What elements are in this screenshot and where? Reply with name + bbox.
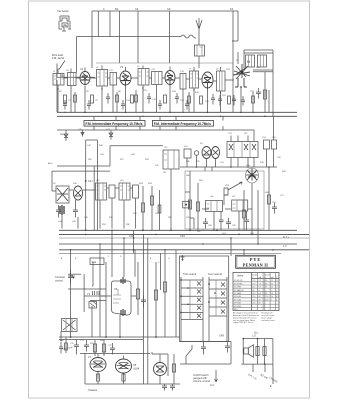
wire drop x169.6 (169, 11, 171, 63)
svg-text:250: 250 (252, 296, 255, 298)
svg-text:and meter used.: and meter used. (261, 319, 275, 322)
svg-text:—: — (252, 306, 254, 308)
svg-text:3.2: 3.2 (271, 283, 274, 285)
bus vertical right (133, 230, 135, 253)
drop T4 (182, 89, 184, 112)
rectifier V10 (154, 354, 167, 384)
wire h339 (59, 339, 143, 341)
resistor rb1 (136, 262, 139, 315)
dot C50 (73, 277, 75, 279)
terminal labels below bus (61, 256, 170, 264)
resistor rl1 (141, 186, 144, 230)
wire m drops (214, 183, 258, 230)
table caption left (233, 312, 259, 325)
svg-text:V1: V1 (80, 67, 84, 71)
cap c-d (211, 94, 215, 105)
ratio detector transformer T7 (227, 142, 258, 158)
wire AGC pair lower (57, 170, 110, 172)
T1 windings (54, 74, 64, 86)
wire h384 (85, 383, 180, 385)
T7 diode marks (229, 144, 256, 150)
T9 windings (120, 183, 130, 200)
strip1 terminals (180, 279, 189, 313)
svg-text:Chassis: Chassis (88, 388, 98, 392)
cathode resistor ro3 (96, 374, 99, 381)
svg-text:Contrast: Contrast (55, 275, 65, 279)
bus rail B1 (59, 229, 297, 231)
cap c-b (147, 93, 151, 104)
svg-text:Car Aerial: Car Aerial (57, 9, 69, 13)
grid bias wire (57, 74, 85, 113)
cap cb1 (68, 270, 73, 284)
valve V1 (80, 72, 90, 86)
wire x273 link (273, 116, 275, 140)
junction dots 337 (70, 336, 157, 338)
V6 grid lines (113, 289, 121, 303)
drop T3b (156, 85, 158, 113)
valve V5 FM discriminator (233, 64, 250, 87)
table sub headers (252, 274, 278, 280)
wire x231 drop (230, 342, 232, 365)
cap co3 (110, 343, 115, 355)
cap af1 (219, 212, 224, 231)
svg-text:6.5: 6.5 (259, 293, 262, 295)
cap co2 (84, 340, 89, 352)
wire drop x119.5 (119, 11, 121, 63)
bus rail B6 (59, 252, 281, 254)
osc trimmer box2 (258, 55, 267, 67)
speaker network rail bottom (241, 363, 273, 365)
svg-text:V7 UL84: V7 UL84 (234, 299, 241, 301)
svg-text:5: 5 (271, 299, 272, 301)
wire drop x138 (137, 11, 139, 63)
cap c-f (232, 95, 236, 106)
resistor r-a (64, 95, 67, 103)
tuner box inner (164, 150, 174, 169)
oscillator top wires (244, 50, 273, 70)
drop V4 (207, 90, 209, 113)
valve V6a (202, 147, 211, 159)
diode D2 (81, 131, 84, 137)
bus drop stubs (71, 229, 258, 297)
wire IF2 drops (62, 198, 136, 229)
svg-text:6.2: 6.2 (276, 296, 279, 298)
wire top of R20 (253, 70, 273, 116)
cap cl1 (56, 205, 61, 218)
volume control arrow (228, 182, 242, 190)
AF small box (183, 201, 190, 208)
cap cm2 (203, 218, 208, 229)
cap cbr2 (225, 342, 230, 353)
output valve V8 (116, 356, 132, 382)
T8 windings (97, 183, 107, 200)
resistor ro2 (102, 340, 105, 356)
svg-text:6: 6 (276, 299, 277, 301)
svg-text:170: 170 (252, 283, 255, 285)
wire long vertical x94.2 (93, 166, 95, 230)
svg-text:85: 85 (265, 280, 267, 282)
table header rule (252, 278, 280, 280)
svg-text:V2: V2 (120, 65, 124, 69)
box terminal mark (181, 255, 185, 261)
mid small dots (196, 166, 270, 168)
bus rail B5 (59, 249, 309, 251)
svg-text:170: 170 (252, 280, 255, 282)
resistor rl3 (158, 190, 161, 230)
V6 anode blob top (121, 277, 125, 284)
wire second rail (77, 36, 182, 38)
svg-text:.5: .5 (259, 290, 261, 292)
IF transformer T4 (180, 74, 186, 90)
valve V6b triode (246, 168, 259, 183)
drop V5 (240, 87, 242, 112)
AM IF link line (57, 130, 254, 136)
wire det rail (180, 166, 277, 168)
svg-text:1.2: 1.2 (271, 280, 274, 282)
cap cr2 (170, 384, 175, 391)
T4 inner (182, 74, 184, 90)
strip link wires (64, 78, 234, 81)
table caption right (261, 313, 275, 322)
cap cm3 (226, 218, 231, 229)
trimmer box t1 (264, 140, 270, 149)
wire drop x110 (109, 11, 111, 37)
svg-text:A.C.: A.C. (210, 383, 215, 387)
svg-text:supply 240V A.C. 50 c/s.: supply 240V A.C. 50 c/s. (233, 321, 254, 324)
label box link stubs (94, 116, 223, 130)
resistor ro5 (65, 340, 68, 353)
drop V2 (125, 86, 127, 112)
coupling box T2b (110, 73, 117, 86)
svg-text:F.M. Intermediate Frequency 10: F.M. Intermediate Frequency 10.7Mc/s (86, 122, 143, 126)
cap c-h (87, 100, 91, 110)
cap c-l (241, 96, 245, 106)
junction dots bus (84, 112, 266, 118)
aerial coil L19 (195, 45, 205, 56)
dark electrode blob V9 (60, 205, 64, 215)
bus junction dots (85, 229, 240, 250)
svg-text:.9: .9 (276, 293, 278, 295)
drop V1 (84, 86, 86, 113)
bus line IF lower (57, 115, 297, 117)
resistor rm3 (267, 167, 270, 230)
wire top HT rail (92, 10, 238, 12)
small circle am (194, 151, 198, 155)
box m2 inner (233, 200, 243, 211)
resistor ro1 (93, 340, 96, 356)
strip1 mid rail (189, 280, 191, 319)
strip2 mid rail (215, 280, 217, 316)
svg-text:Valve: Valve (237, 274, 244, 278)
cathode resistor ro4 (122, 374, 125, 381)
cap af2 (245, 211, 250, 230)
valve V3 (165, 71, 175, 86)
svg-text:F.M. aerial: F.M. aerial (52, 56, 64, 60)
cap c-a (106, 93, 110, 104)
svg-text:Over wound: Over wound (208, 272, 223, 276)
table cells text (234, 280, 279, 311)
coupling box m1 (206, 201, 223, 212)
AF board outline (185, 171, 264, 229)
FM IF label box 1 (84, 121, 145, 127)
T1b inner (71, 73, 74, 86)
wire drop x160b (160, 253, 162, 290)
pot body (224, 188, 228, 195)
valve V4 (202, 72, 213, 90)
strip2 terminals (208, 283, 216, 303)
svg-text:V5: V5 (247, 60, 251, 64)
value labels IF strip mid (59, 90, 255, 103)
wire h353.5 (80, 353, 150, 355)
osc trimmer box2 inner (261, 55, 264, 67)
wire bottom links (92, 286, 136, 337)
wire strip drops (181, 321, 227, 342)
wire long vertical x97.4 (96, 140, 98, 230)
extra mid wires (185, 167, 252, 229)
option strip 1 (181, 277, 203, 321)
svg-text:80: 80 (252, 290, 254, 292)
wire mid top links (86, 140, 163, 166)
wire flex squiggle (181, 35, 196, 38)
T3 windings (139, 69, 149, 86)
drop wire ext3 (272, 367, 274, 384)
cap c-i (121, 100, 125, 110)
svg-text:R2: R2 (115, 7, 119, 11)
resistor r-j (188, 92, 191, 112)
cap cb2 (141, 295, 146, 308)
svg-text:—: — (265, 290, 267, 292)
svg-text:E: E (270, 384, 272, 388)
svg-text:MR1: MR1 (234, 309, 238, 311)
svg-text:85: 85 (265, 287, 267, 289)
drop V3 (169, 86, 171, 113)
label group bl (60, 340, 113, 347)
value labels IF strip top (53, 60, 261, 73)
strip1 diodes (197, 282, 201, 318)
strip top rail (96, 62, 233, 64)
svg-text:volume control: volume control (193, 379, 210, 383)
bus rail B4 (59, 243, 297, 245)
switch S3 (186, 345, 192, 364)
svg-text:.8: .8 (276, 280, 278, 282)
resistor rm2 (196, 183, 199, 230)
loudspeaker LS1 (244, 345, 254, 357)
svg-text:C49: C49 (180, 234, 185, 238)
wire drop x106 (105, 262, 107, 337)
svg-text:L.S.: L.S. (252, 334, 257, 338)
svg-text:V8: V8 (133, 363, 137, 367)
wire v85 (85, 354, 124, 385)
T6 windings (220, 71, 223, 91)
table label column (251, 272, 253, 310)
drop T5 (193, 88, 195, 112)
drop T1b (70, 86, 72, 113)
svg-text:V6: V6 (114, 287, 118, 291)
table col lines (258, 272, 276, 310)
cap co1 (74, 340, 79, 355)
resistor rm1 (188, 171, 191, 230)
svg-text:.7: .7 (276, 283, 278, 285)
cap c-j (158, 100, 162, 110)
table row lines (233, 282, 279, 308)
svg-text:42: 42 (259, 299, 261, 301)
trimmer box t2 (272, 140, 277, 149)
svg-text:200: 200 (265, 299, 268, 301)
svg-text:PENMAN II: PENMAN II (243, 262, 268, 267)
Y1 hatch (90, 302, 97, 308)
resistor r-b (91, 95, 94, 103)
svg-text:6.5: 6.5 (259, 287, 262, 289)
svg-text:V1 ECC85: V1 ECC85 (234, 280, 243, 282)
wire drop x76.5 (76, 37, 78, 73)
drop T6 (220, 91, 222, 112)
drop T1 (57, 85, 59, 112)
svg-text:H.T.+: H.T.+ (283, 235, 290, 239)
svg-text:L.T.: L.T. (283, 244, 287, 248)
svg-text:S1: S1 (230, 7, 234, 11)
svg-text:control: control (55, 279, 63, 283)
cap cl2 (73, 200, 78, 218)
output valve V7 (90, 354, 106, 380)
T5 windings (191, 71, 199, 88)
svg-text:S2a: S2a (92, 260, 97, 264)
resistor r-d (164, 95, 167, 103)
wire h337 (59, 336, 180, 338)
bus junction dots extra (70, 230, 274, 251)
diode D1 (64, 130, 68, 141)
resistor r-k (252, 92, 255, 112)
mains transformer TR1 (62, 319, 78, 332)
FM aerial lead-in (57, 61, 95, 78)
svg-text:48: 48 (259, 296, 261, 298)
cap c-e (218, 95, 222, 106)
IF transformer T6 (217, 71, 226, 91)
strip2 diodes (221, 283, 225, 314)
wire drop x143.4 (142, 234, 144, 384)
resistor r-c (131, 95, 134, 103)
AM rod aerial A2 (196, 18, 202, 45)
svg-text:C4: C4 (135, 7, 139, 11)
IF2 valve V9 (56, 186, 69, 203)
svg-text:Twin output: Twin output (183, 272, 197, 276)
svg-text:V4 EABC80: V4 EABC80 (234, 289, 244, 292)
T2b inner (112, 73, 114, 86)
svg-text:Y1: Y1 (87, 292, 91, 296)
svg-text:C47: C47 (88, 179, 93, 183)
option strip 2 (209, 277, 227, 321)
resistor rl2 (150, 186, 153, 230)
thermistor network Y1 (68, 274, 106, 312)
svg-text:1.8: 1.8 (259, 283, 262, 285)
wire top 274 (68, 273, 81, 275)
svg-text:210: 210 (252, 287, 255, 289)
resistor rb2 (154, 262, 157, 337)
resistor rb3 (163, 257, 166, 337)
small box am1 (184, 149, 191, 158)
svg-text:UL84: UL84 (133, 367, 140, 371)
resistor r-h (116, 92, 119, 112)
svg-text:V2 ECH81: V2 ECH81 (234, 283, 243, 285)
resistor rm4 (243, 190, 246, 230)
svg-text:2.4: 2.4 (271, 287, 274, 289)
svg-text:—: — (271, 290, 273, 292)
valve V6b (212, 147, 220, 159)
drop T2 (101, 86, 103, 112)
svg-text:C48: C48 (129, 234, 134, 238)
valve V10 (74, 186, 83, 200)
coupling box T8b (109, 185, 115, 198)
IF transformer T3 (138, 69, 149, 86)
wire h364 (180, 363, 231, 365)
wire drop x176 (175, 250, 177, 337)
V6 cathode blob bottom (121, 309, 125, 316)
coil L19 inner (197, 45, 203, 56)
cap c-k (185, 100, 189, 110)
value labels AF area (186, 165, 277, 204)
coupling box T9b (133, 185, 139, 198)
strip bottom dots (64, 112, 253, 117)
wire V5 feed (232, 11, 238, 64)
wire drop x98 (97, 11, 99, 37)
svg-text:V5 EM81: V5 EM81 (234, 293, 241, 295)
output options box (180, 256, 229, 342)
wire box bottom rail (180, 341, 231, 343)
bus rail B3 (59, 237, 309, 239)
resistor r-i (135, 90, 138, 112)
resistor r-g (74, 92, 77, 112)
osc trimmer box1 inner (249, 55, 252, 67)
T3b inner (155, 72, 159, 85)
T7 windings (234, 142, 250, 158)
bus line IF upper (57, 111, 297, 113)
drop wire ext1 (252, 364, 254, 372)
resistor rr1 (172, 354, 175, 384)
svg-text:V8 EZ80: V8 EZ80 (234, 303, 241, 305)
cap c-c (175, 93, 179, 104)
T7 top stubs (231, 136, 254, 142)
svg-text:80: 80 (265, 283, 267, 285)
coupling box m2 (232, 200, 248, 211)
svg-text:.9: .9 (276, 287, 278, 289)
diode D3 (109, 131, 113, 140)
svg-text:AGC: AGC (48, 162, 53, 165)
value labels mid right top (184, 133, 277, 148)
value labels mid left (48, 129, 168, 226)
valve V2 (120, 71, 131, 86)
svg-text:V6 EL84: V6 EL84 (234, 296, 241, 298)
wire det drops (231, 149, 274, 167)
svg-text:5.4: 5.4 (271, 296, 274, 298)
junction dot x85 (85, 180, 87, 182)
wire drop x147.8 (147, 238, 149, 384)
IF transformer T8 (96, 183, 107, 200)
wire drop x93 (92, 262, 94, 286)
svg-text:85: 85 (265, 293, 267, 295)
cap cm1 (272, 203, 277, 214)
wire L19 down (198, 56, 200, 68)
svg-text:F.M. Intermediate Frequency 10: F.M. Intermediate Frequency 10.7Mc/s (154, 122, 211, 126)
labels below AF (186, 217, 255, 235)
cap co4 (59, 342, 63, 354)
svg-text:V3 EF89: V3 EF89 (234, 287, 241, 289)
wire IF2 top links (52, 171, 133, 191)
svg-text:250: 250 (252, 303, 255, 305)
FM IF label box 2 (152, 121, 213, 127)
IF transformer T1 (53, 74, 64, 86)
svg-text:—: — (276, 290, 278, 292)
AF switch box (90, 258, 104, 265)
IF transformer T2 (97, 70, 108, 87)
